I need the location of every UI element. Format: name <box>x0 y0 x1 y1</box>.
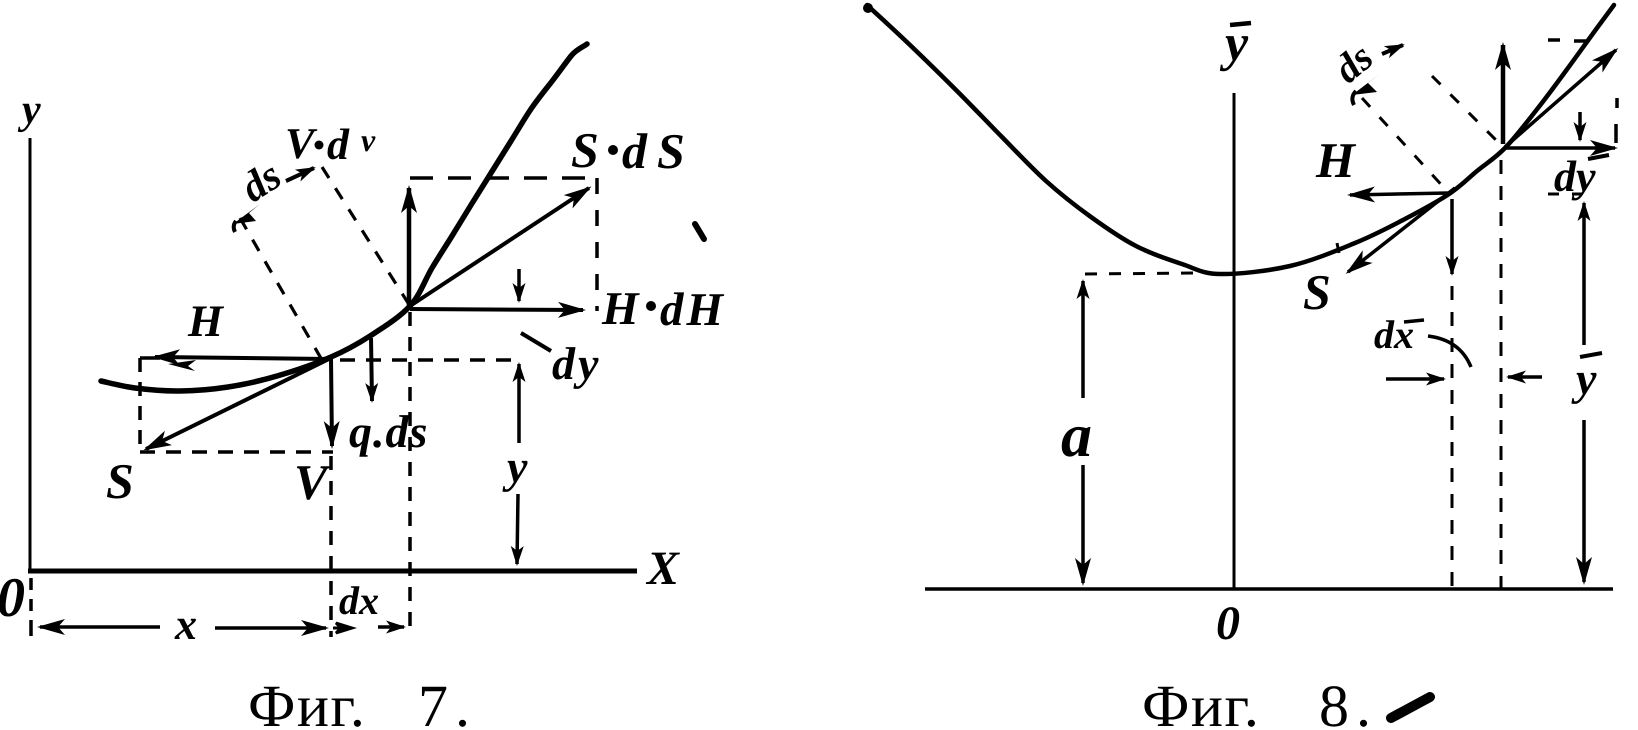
blob at curve start <box>863 3 873 13</box>
svg-text:X: X <box>645 542 680 595</box>
svg-text:dS: dS <box>622 123 695 179</box>
dashed rectangle top edge (upper point) <box>410 176 597 180</box>
dy leader line <box>521 333 551 351</box>
small dy tick arrow above H+dH <box>517 269 521 301</box>
svg-text:v: v <box>361 122 376 158</box>
overbar of axis label <box>1230 23 1251 25</box>
small secondary arrowhead on H <box>168 360 196 371</box>
svg-text:ds: ds <box>233 153 289 212</box>
svg-text:y: y <box>502 441 528 492</box>
svg-text:d: d <box>327 120 350 169</box>
dashed rectangle lower-left: top hook <box>140 356 160 360</box>
svg-text:y: y <box>17 87 41 133</box>
y dimension arrow (double) <box>517 364 521 443</box>
svg-text:H: H <box>1315 132 1357 188</box>
small tick on curve left of S <box>1337 243 1339 253</box>
svg-text:S: S <box>106 453 134 509</box>
dashed vertical at right (to horizontal arrow tip) <box>1615 98 1619 108</box>
svg-text:7.: 7. <box>418 673 477 730</box>
catenary curve fig8 <box>867 5 1614 274</box>
ds arrow upper (to up-right) <box>286 168 314 181</box>
tangent arrow at point 2 (up-right) <box>1505 50 1616 147</box>
overbar of d y-bar <box>1588 155 1609 159</box>
svg-text:dx: dx <box>339 578 379 623</box>
svg-text:Фиг.: Фиг. <box>1142 673 1260 730</box>
x dimension arrow right part <box>215 626 326 630</box>
force arrow S at point 1 (tangent down-left) <box>1348 188 1455 272</box>
dx small arrow right of x1 line <box>333 623 352 633</box>
svg-text:dx: dx <box>1374 312 1414 357</box>
svg-text:Фиг.: Фиг. <box>248 673 366 730</box>
y-bar dimension arrow (double, tall) <box>1582 203 1586 345</box>
svg-text:S: S <box>1303 264 1331 320</box>
svg-text:y: y <box>1571 353 1597 404</box>
ds arrowhead lower (to down-left) <box>233 204 260 224</box>
force arrow V at lower point <box>331 359 332 446</box>
dashed rectangle lower-left: left edge <box>138 358 142 452</box>
catenary curve fig7 <box>101 44 587 391</box>
y-axis <box>29 138 32 571</box>
dashed vertical below point 1 <box>1451 286 1454 588</box>
dx-bar dimension left arrow <box>1386 377 1444 381</box>
force arrow V+dv (vertical up at upper point) <box>407 188 412 306</box>
dashed vertical below origin <box>29 578 33 614</box>
dx dimension arrow at x2 line <box>378 625 404 629</box>
x dimension left tick <box>29 620 33 636</box>
small down tick arrow onto horizontal arrow <box>1578 112 1582 140</box>
dashed rectangle lower-left: bottom edge <box>140 450 333 454</box>
ds arrowhead (down-left) <box>1352 73 1381 95</box>
svg-text:0: 0 <box>1216 597 1240 650</box>
svg-text:V: V <box>294 454 331 510</box>
ds dashed line to point 2 <box>1432 76 1502 146</box>
stray ink mark <box>695 224 704 239</box>
svg-text:V: V <box>285 119 318 168</box>
force arrow S+dS (tangent up-right at upper point) <box>410 188 589 306</box>
leader curve from dx-bar label <box>1428 336 1471 367</box>
dashed vertical below lower point x1 <box>329 456 333 637</box>
y-bar axis <box>1233 93 1236 588</box>
svg-text:ds: ds <box>1325 34 1381 91</box>
overbar of dx-bar <box>1404 320 1424 322</box>
dashed rectangle right edge (upper point) <box>595 178 599 311</box>
svg-text:dy: dy <box>552 338 601 389</box>
svg-text:a: a <box>1061 402 1092 470</box>
svg-text:H: H <box>187 296 225 346</box>
force arrow H+dH (right at upper point) <box>410 309 583 310</box>
rotated ds element: left dashed edge <box>240 218 322 360</box>
vertical up arrow at point 2 <box>1501 45 1506 144</box>
dx-bar dimension right arrow <box>1508 375 1542 379</box>
dashed vertical below upper point x2 <box>408 312 412 637</box>
force arrow H at lower point <box>155 357 329 359</box>
load arrow q.ds <box>371 338 372 401</box>
svg-text:S: S <box>571 122 599 178</box>
svg-text:0: 0 <box>0 567 25 629</box>
ds dashed line to point 1 <box>1362 98 1448 192</box>
svg-text:dH: dH <box>660 284 726 336</box>
x-axis <box>28 569 637 574</box>
rotated ds element: right dashed edge <box>322 167 410 306</box>
force arrow S at lower point <box>146 359 329 449</box>
a dimension arrow (double) <box>1081 281 1085 398</box>
dashed horizontal line from lower point to y-dimension <box>340 358 518 362</box>
svg-text:x: x <box>174 600 197 649</box>
svg-text:q.ds: q.ds <box>349 406 428 457</box>
pen stroke after caption <box>1391 697 1430 718</box>
x dimension arrow left part <box>40 625 160 629</box>
svg-text:8.: 8. <box>1319 673 1378 730</box>
dashed horizontal at top (from up-arrow tip) <box>1548 38 1560 42</box>
dashed level line at point-1 height to y-bar dimension <box>1548 193 1582 196</box>
overbar of y-bar dimension label <box>1580 353 1602 357</box>
vertical down arrow at point 1 <box>1450 199 1454 274</box>
svg-text:H: H <box>601 283 640 335</box>
force arrow H at point 1 <box>1350 193 1449 195</box>
horizontal arrow at point 2 (right) <box>1504 146 1615 150</box>
ds arrow (up-right) <box>1382 45 1403 54</box>
dashed vertical below point 2 <box>1500 160 1503 588</box>
x-bar axis (bottom) <box>925 587 1613 591</box>
dashed horizontal from a-dimension to curve minimum <box>1085 273 1200 274</box>
